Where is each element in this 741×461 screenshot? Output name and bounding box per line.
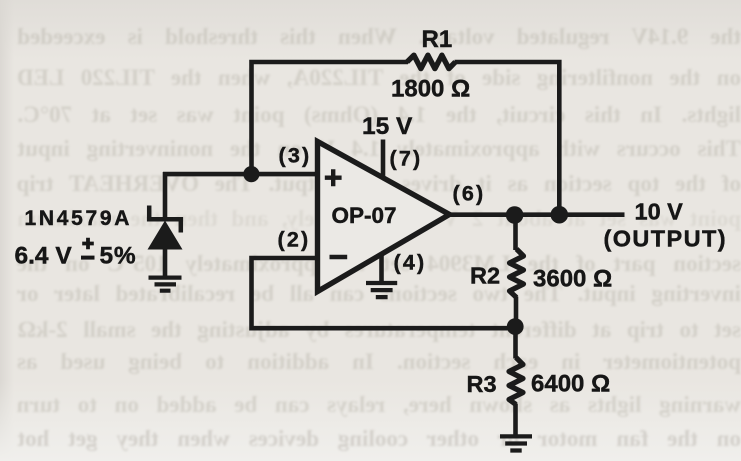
wire: pin 7 supply stub (381, 140, 386, 179)
node A junction dot (243, 166, 259, 182)
paper shading top (0, 0, 741, 60)
wire: output from pin 6 (446, 212, 625, 217)
svg-text:(4): (4) (394, 251, 427, 275)
svg-text:15 V: 15 V (362, 113, 413, 140)
svg-text:3600 Ω: 3600 Ω (533, 266, 612, 293)
svg-text:R3: R3 (467, 371, 497, 397)
wire: R2 to junction node (514, 297, 519, 328)
svg-text:R2: R2 (470, 263, 500, 289)
svg-text:6.4 V: 6.4 V (15, 243, 73, 270)
paper shading left edge (0, 0, 14, 461)
resistor R1 (407, 55, 455, 68)
ground (zener) (149, 278, 182, 291)
resistor R2 (510, 249, 524, 298)
zener diode D1 anode triangle (148, 221, 183, 250)
wire: pin 3 input from node A (163, 172, 319, 177)
op-amp U1 OP-07 body (318, 142, 450, 292)
paper shading bottom light (0, 380, 741, 461)
ground (pin 4) (366, 283, 397, 297)
wire: top rail right and down to output node (455, 62, 560, 215)
svg-text:(7): (7) (390, 147, 423, 171)
svg-text:(2): (2) (278, 228, 311, 252)
svg-text:10 V: 10 V (635, 199, 684, 225)
wire: zener anode to ground (163, 248, 168, 277)
resistor R3 (509, 358, 523, 405)
svg-text:1N4579A: 1N4579A (25, 207, 133, 230)
op-amp plus symbol (325, 169, 342, 186)
op-amp minus symbol (330, 255, 348, 260)
bleed-through mirrored text lines (0, 25, 741, 48)
svg-text:OP-07: OP-07 (332, 203, 397, 228)
ground (R3) (500, 436, 532, 450)
svg-text:(OUTPUT): (OUTPUT) (604, 226, 727, 252)
wire: node A up to top rail (252, 62, 409, 172)
svg-text:1800 Ω: 1800 Ω (391, 76, 470, 103)
svg-text:(3): (3) (279, 144, 312, 168)
zener diode D1 cathode bar (147, 206, 183, 233)
wire: junction node to R3 (513, 327, 518, 359)
svg-text:5%: 5% (100, 243, 137, 270)
wire: zener cathode up to node A rail (163, 172, 168, 218)
output node dot (R2 tap) (506, 206, 524, 224)
output node dot (R1 feedback) (551, 206, 569, 224)
svg-text:6400 Ω: 6400 Ω (531, 371, 610, 398)
wire: feedback to pin 2 (252, 258, 516, 328)
tolerance plus-minus sign (82, 238, 94, 249)
wire: R3 to ground (513, 404, 518, 436)
R2/R3 junction dot (507, 318, 524, 335)
wire: pin 4 to ground (379, 254, 384, 282)
svg-text:R1: R1 (422, 26, 453, 53)
wire: output node down to R2 (513, 215, 518, 250)
svg-text:(6): (6) (453, 182, 486, 206)
